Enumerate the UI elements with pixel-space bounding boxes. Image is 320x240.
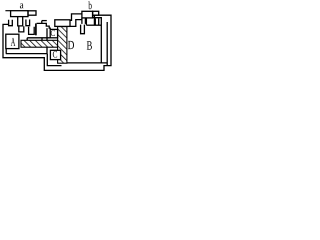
neck a right wall [26,20,30,26]
neck a left wall [9,20,13,26]
wire vessel outer boundary [3,15,111,70]
piston rod hatched band [21,40,58,47]
wire inner rim step right of gland [70,20,82,27]
wire cylinder left wall upper [46,28,48,40]
wire sump inner wall and bottom [47,54,61,66]
wire support riser under box A [5,49,7,54]
valve b stem right [93,15,95,25]
valve a cap left rect [11,11,28,17]
neck b left wall inner [84,18,86,24]
box C lower [50,50,60,59]
wire cylinder left wall lower [46,47,48,53]
slider box W right [41,38,43,41]
label C upper [51,30,55,36]
wire right channel outer wall [106,22,108,66]
neck b left wall outer [81,18,83,24]
label C lower [53,51,57,58]
box C upper [50,29,57,37]
label a [20,3,24,8]
valve b cap left rect [82,11,93,18]
valve a cap right rect [28,11,36,15]
wire cap a top lip [5,10,10,12]
label b [88,1,91,9]
valve a stem [18,17,23,26]
box A [6,34,19,48]
wire raised rim to valve b [70,14,82,21]
wire step under gland [41,21,43,24]
slot box 2 [29,27,35,35]
neck b right wall outer [98,18,100,25]
label B [87,41,92,49]
valve b cap right rect [93,11,99,15]
hanger leg [35,23,37,35]
hanging valve box right [81,25,85,34]
gland box R3 [55,20,70,27]
wire floor line under B [67,62,107,64]
piston body hatched column [58,27,67,64]
label D [68,41,74,49]
neck b right wall inner [94,18,96,25]
wire upper step line [42,20,47,22]
wire right plate step / channel inner wall [93,15,102,63]
wire shelf line [27,37,50,39]
label A [11,38,16,46]
slider box W left [26,38,28,41]
wire chamber ceiling line right [86,24,101,26]
wire inner floor left [6,53,48,55]
valve b stem left [85,18,87,25]
slot box 1 [19,26,24,32]
wire tank top centre staircase [37,23,51,29]
